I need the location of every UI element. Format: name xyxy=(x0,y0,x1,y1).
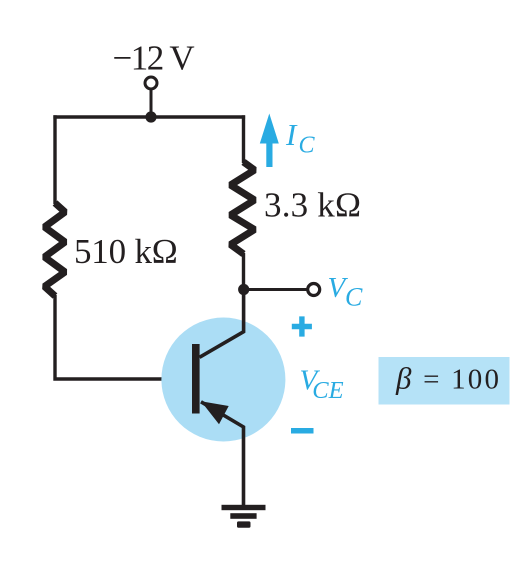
supply terminal xyxy=(145,77,157,89)
svg-text:β = 100: β = 100 xyxy=(395,361,501,396)
transistor Q1 highlight circle xyxy=(161,318,285,442)
svg-text:CE: CE xyxy=(312,377,343,404)
wire: right branch upper xyxy=(242,115,245,163)
junction dot xyxy=(145,111,156,122)
resistor R1 510 kOhm xyxy=(45,203,66,296)
VC terminal circle xyxy=(308,284,320,296)
svg-text:−12 V: −12 V xyxy=(113,39,195,78)
svg-text:C: C xyxy=(299,133,316,159)
node VC junction dot xyxy=(238,284,249,295)
svg-text:I: I xyxy=(285,117,298,152)
plus sign xyxy=(292,316,312,336)
wire: right branch lower to node xyxy=(242,253,245,291)
beta box xyxy=(379,357,510,405)
wire: top bus xyxy=(53,115,245,118)
svg-text:510 kΩ: 510 kΩ xyxy=(74,232,178,271)
ground symbol xyxy=(222,505,266,510)
svg-text:C: C xyxy=(345,283,363,312)
svg-text:3.3 kΩ: 3.3 kΩ xyxy=(264,186,361,225)
current arrow IC xyxy=(260,114,279,168)
transistor Q1 emitter arrow (PNP) xyxy=(201,401,229,424)
minus sign xyxy=(291,428,314,434)
wire: left branch upper xyxy=(53,115,56,204)
transistor Q1 emitter line xyxy=(201,402,244,505)
wire: node to VC terminal xyxy=(244,288,309,291)
transistor Q1 collector line xyxy=(200,291,244,357)
transistor Q1 base bar xyxy=(192,344,200,414)
wire: supply terminal to bus xyxy=(150,90,153,117)
wire: left branch lower + base wire xyxy=(55,295,193,379)
resistor R2 3.3 kOhm xyxy=(231,162,255,254)
